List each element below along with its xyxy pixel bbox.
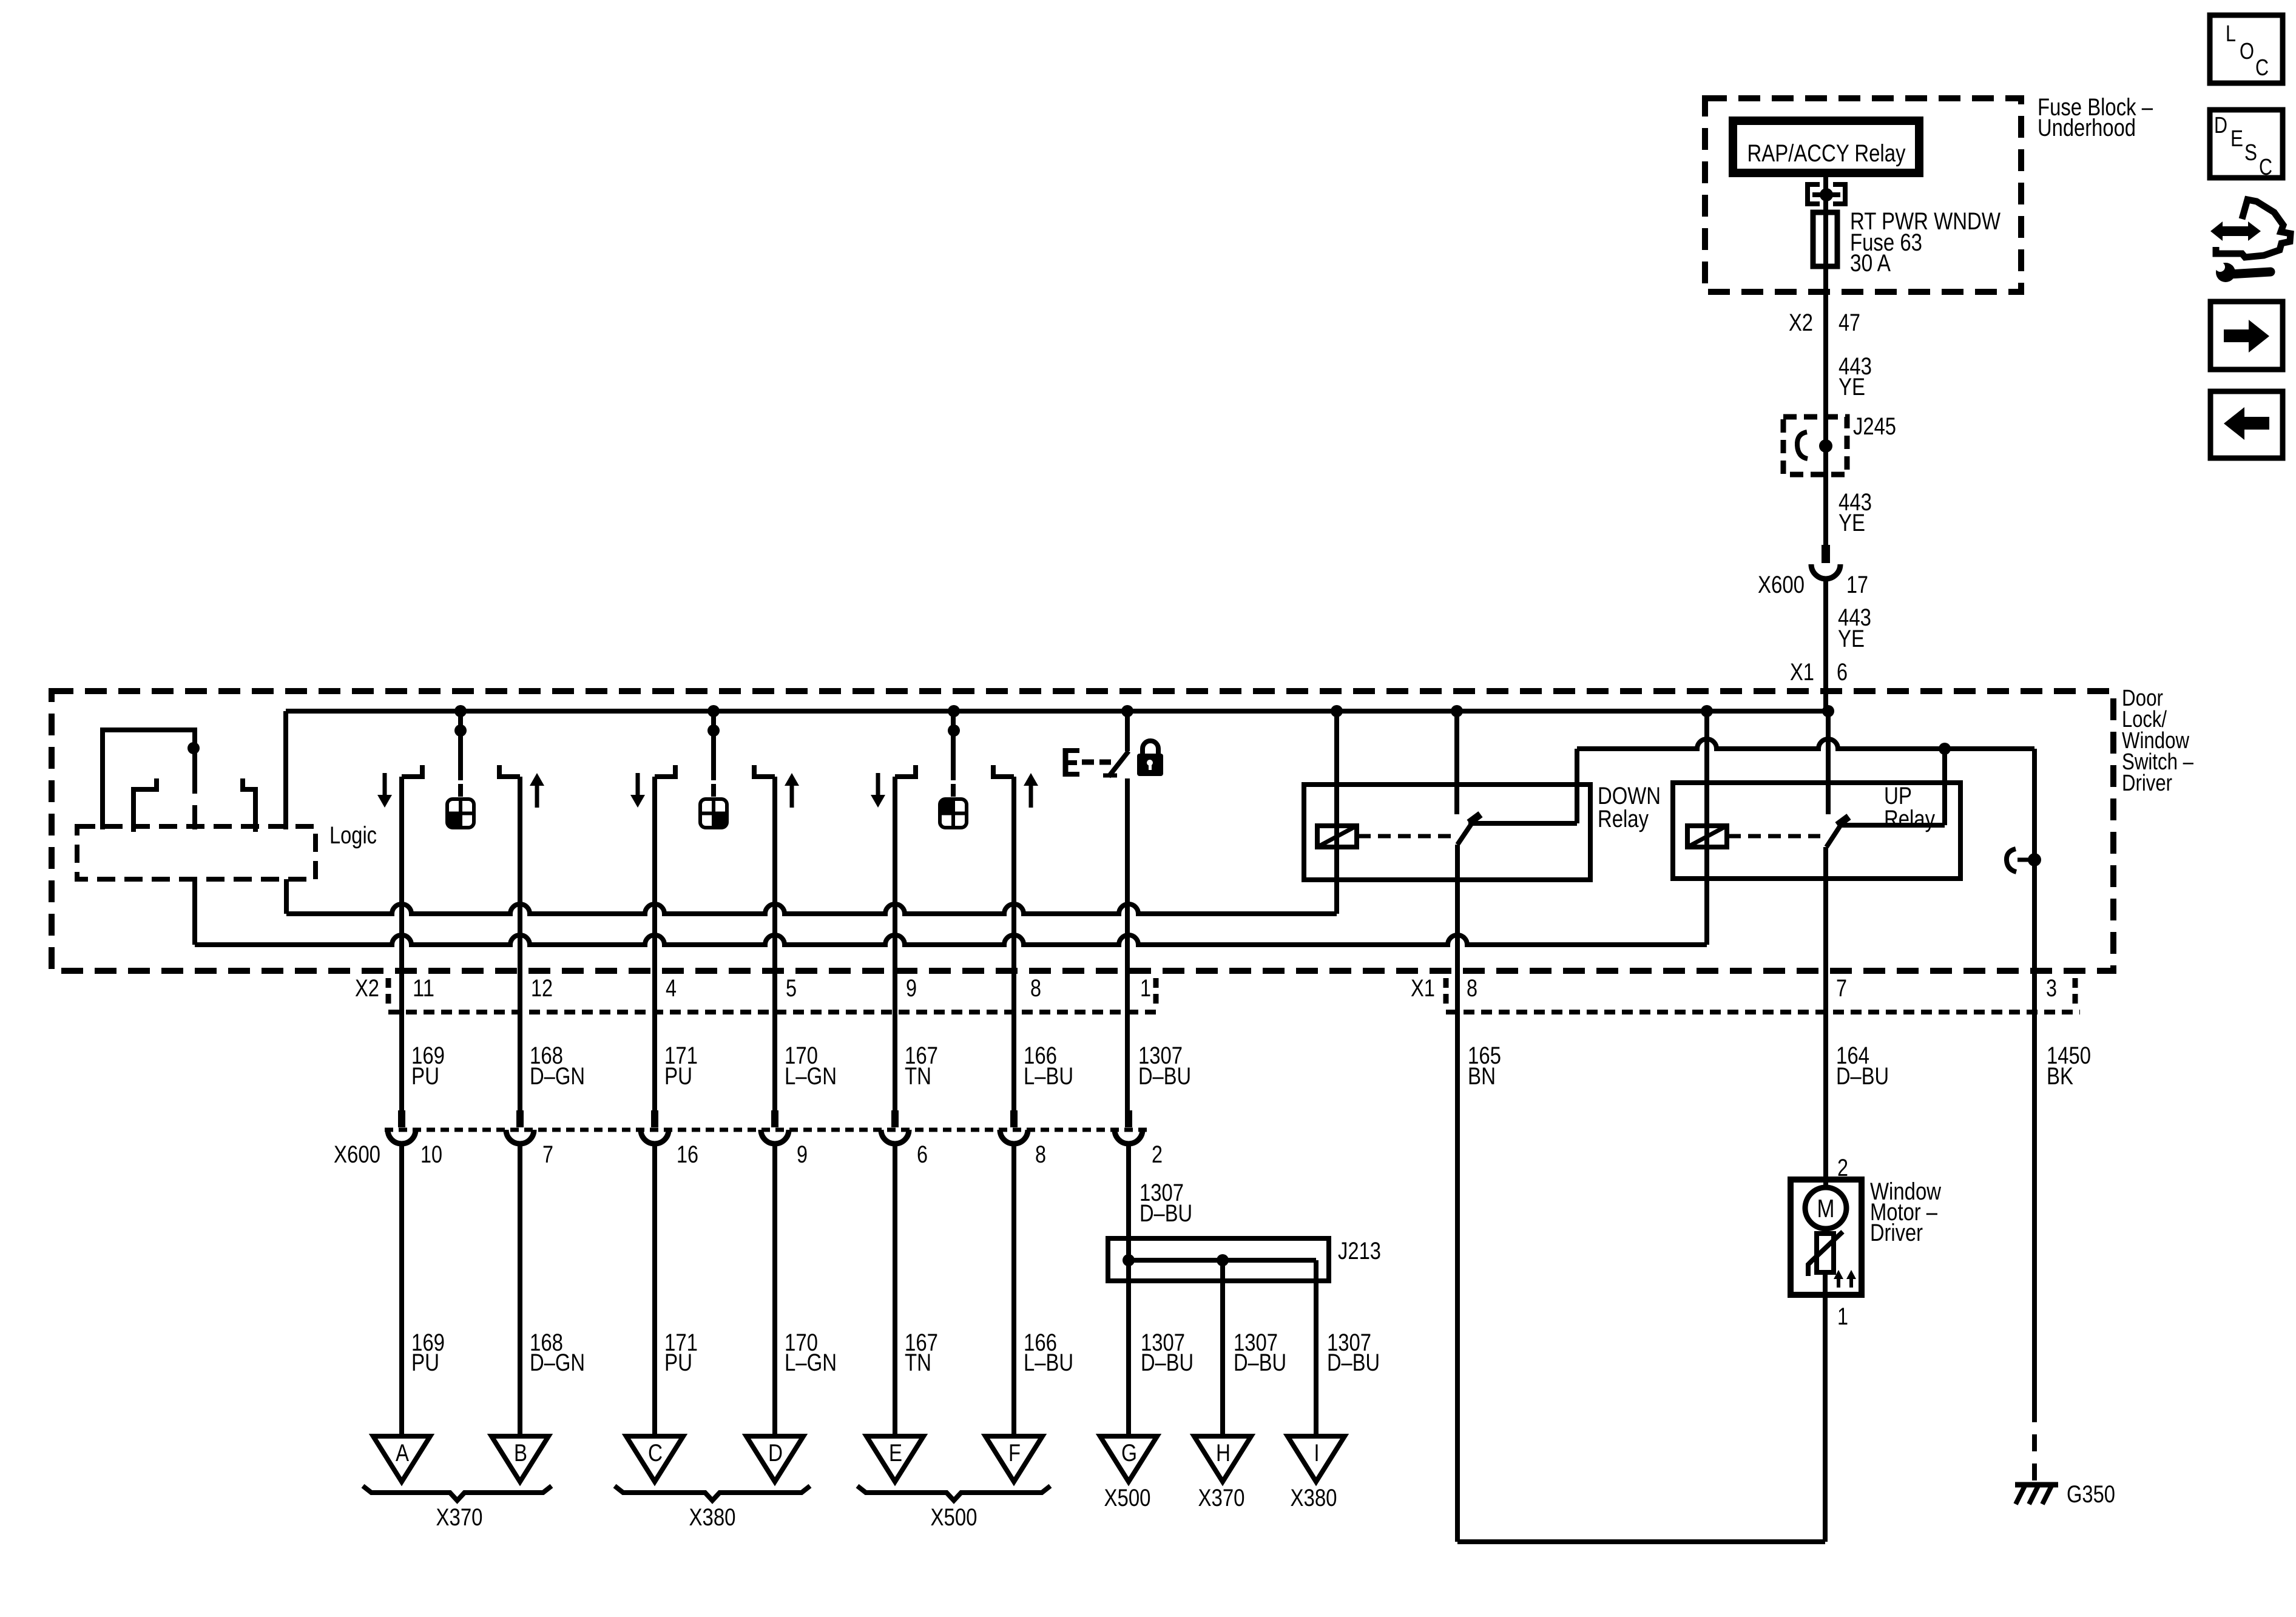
- svg-text:M: M: [1817, 1194, 1835, 1223]
- svg-text:PU: PU: [411, 1349, 439, 1376]
- svg-text:Relay: Relay: [1884, 806, 1935, 832]
- svg-text:C: C: [2259, 155, 2272, 180]
- svg-text:BN: BN: [1468, 1063, 1496, 1090]
- svg-text:3: 3: [2046, 975, 2057, 1002]
- svg-text:X2: X2: [355, 975, 379, 1002]
- svg-text:H: H: [1216, 1440, 1231, 1467]
- svg-text:O: O: [2240, 39, 2254, 64]
- svg-text:X600: X600: [334, 1141, 380, 1168]
- svg-text:J213: J213: [1338, 1238, 1381, 1264]
- svg-text:D–BU: D–BU: [1140, 1200, 1192, 1227]
- svg-text:11: 11: [413, 975, 434, 1002]
- svg-text:TN: TN: [905, 1349, 931, 1376]
- svg-text:G: G: [1121, 1440, 1137, 1467]
- svg-text:BK: BK: [2047, 1063, 2073, 1090]
- svg-text:8: 8: [1467, 975, 1477, 1002]
- svg-text:TN: TN: [905, 1063, 931, 1090]
- svg-text:A: A: [396, 1440, 409, 1467]
- svg-text:X370: X370: [1198, 1485, 1245, 1511]
- svg-text:L–BU: L–BU: [1024, 1063, 1073, 1090]
- svg-text:2: 2: [1152, 1141, 1163, 1168]
- svg-text:PU: PU: [664, 1349, 692, 1376]
- svg-text:L–GN: L–GN: [785, 1349, 837, 1376]
- svg-text:L–BU: L–BU: [1024, 1349, 1073, 1376]
- svg-text:F: F: [1008, 1440, 1021, 1467]
- svg-text:G350: G350: [2067, 1481, 2115, 1508]
- svg-text:D–BU: D–BU: [1836, 1063, 1889, 1090]
- svg-text:X500: X500: [931, 1504, 977, 1531]
- svg-text:S: S: [2244, 140, 2257, 166]
- svg-text:12: 12: [531, 975, 553, 1002]
- svg-text:X370: X370: [436, 1504, 483, 1531]
- svg-text:D–GN: D–GN: [530, 1349, 585, 1376]
- svg-text:D–BU: D–BU: [1234, 1349, 1286, 1376]
- svg-text:X2: X2: [1789, 309, 1813, 336]
- svg-text:X380: X380: [1291, 1485, 1337, 1511]
- svg-text:RAP/ACCY Relay: RAP/ACCY Relay: [1747, 140, 1906, 167]
- svg-text:B: B: [514, 1440, 527, 1467]
- svg-text:9: 9: [797, 1141, 808, 1168]
- svg-text:Relay: Relay: [1598, 806, 1649, 832]
- svg-text:E: E: [2230, 126, 2243, 152]
- svg-text:16: 16: [677, 1141, 698, 1168]
- svg-text:10: 10: [420, 1141, 442, 1168]
- svg-text:Driver: Driver: [1870, 1220, 1923, 1246]
- svg-text:Logic: Logic: [329, 822, 377, 849]
- svg-text:1: 1: [1140, 975, 1151, 1002]
- svg-text:30 A: 30 A: [1850, 250, 1891, 277]
- svg-text:17: 17: [1846, 572, 1868, 598]
- svg-text:1: 1: [1837, 1303, 1848, 1330]
- svg-text:Underhood: Underhood: [2038, 115, 2136, 141]
- svg-text:D–GN: D–GN: [530, 1063, 585, 1090]
- svg-text:D: D: [768, 1440, 783, 1467]
- svg-text:PU: PU: [664, 1063, 692, 1090]
- svg-text:X1: X1: [1790, 659, 1814, 686]
- svg-text:C: C: [648, 1440, 663, 1467]
- svg-text:9: 9: [906, 975, 917, 1002]
- svg-text:L: L: [2226, 21, 2236, 47]
- svg-text:47: 47: [1838, 309, 1860, 336]
- svg-text:L–GN: L–GN: [785, 1063, 837, 1090]
- svg-text:X380: X380: [689, 1504, 736, 1531]
- svg-text:D: D: [2214, 113, 2227, 138]
- svg-text:YE: YE: [1838, 374, 1865, 400]
- svg-text:7: 7: [542, 1141, 553, 1168]
- svg-text:C: C: [2255, 55, 2269, 81]
- svg-text:D–BU: D–BU: [1327, 1349, 1380, 1376]
- svg-text:I: I: [1314, 1440, 1320, 1467]
- svg-text:X500: X500: [1104, 1485, 1151, 1511]
- svg-text:8: 8: [1035, 1141, 1046, 1168]
- svg-text:E: E: [889, 1440, 902, 1467]
- svg-text:YE: YE: [1838, 510, 1865, 536]
- svg-text:X1: X1: [1411, 975, 1435, 1002]
- svg-text:6: 6: [917, 1141, 928, 1168]
- svg-text:D–BU: D–BU: [1141, 1349, 1194, 1376]
- svg-text:5: 5: [786, 975, 797, 1002]
- svg-text:Driver: Driver: [2122, 771, 2172, 796]
- svg-text:J245: J245: [1853, 413, 1896, 440]
- svg-text:X600: X600: [1758, 572, 1805, 598]
- svg-text:4: 4: [666, 975, 677, 1002]
- svg-text:D–BU: D–BU: [1138, 1063, 1191, 1090]
- svg-text:7: 7: [1836, 975, 1847, 1002]
- svg-text:6: 6: [1837, 659, 1848, 686]
- svg-text:8: 8: [1030, 975, 1041, 1002]
- svg-text:PU: PU: [411, 1063, 439, 1090]
- svg-text:YE: YE: [1838, 626, 1865, 652]
